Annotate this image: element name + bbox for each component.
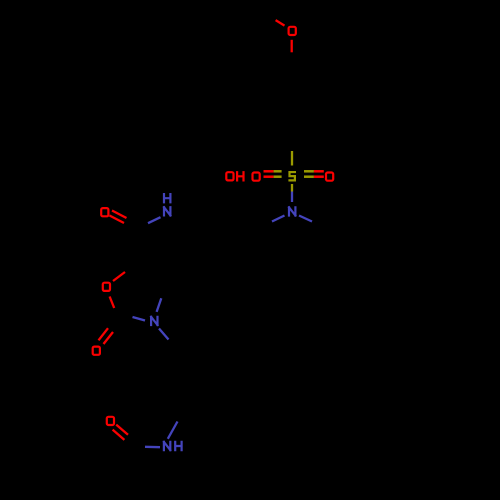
methoxy group: bond CH3-O (O half) xyxy=(276,20,285,26)
S=O left double bond, upper line olive half xyxy=(274,170,282,173)
atom O (sulfonyl right) xyxy=(326,173,333,181)
atom O (methoxy) xyxy=(289,27,296,35)
amide 1: H on N xyxy=(164,194,170,202)
bond O1-C2 (O half) xyxy=(110,297,115,309)
bond N3-C2 (N half) xyxy=(133,317,146,321)
S=O right double bond, upper line olive half xyxy=(304,170,314,173)
amide 1 bond N-C(=O), N half xyxy=(148,217,161,223)
S=O left double bond, lower line red half xyxy=(264,175,274,178)
amide 1 C=O double bond, upper line (O half) xyxy=(112,211,127,219)
S=O right double bond, lower line olive half xyxy=(304,175,314,178)
S=O left double bond, upper line red half xyxy=(264,170,274,173)
bond O-C(ring) upper half (methoxy O) xyxy=(291,40,293,53)
bond S-N, N half xyxy=(291,192,293,203)
acetamide H on N xyxy=(175,442,181,450)
amide 1: atom N xyxy=(164,207,170,215)
bond C(ring)-S upper, S half xyxy=(291,151,293,166)
acetamide C=O double bond, lower line (O half) xyxy=(113,430,125,440)
bond N-CH3 left, N half xyxy=(272,216,285,222)
amide 1: atom O (carbonyl) xyxy=(101,208,108,216)
acetamide C=O double bond, upper line (O half) xyxy=(116,425,128,435)
bond O1-C5 (O half) xyxy=(113,272,125,281)
S=O right double bond, upper line red half xyxy=(314,170,324,173)
oxazolidinone: atom O1 (ring O) xyxy=(103,283,110,291)
atom S (sulfonyl) xyxy=(290,172,295,180)
S=O left double bond, lower line olive half xyxy=(274,175,282,178)
S=O right double bond, lower line red half xyxy=(314,175,324,178)
amide 1 C=O double bond, lower line (O half) xyxy=(110,216,125,224)
atom O (oxazolidinone carbonyl) xyxy=(93,347,100,355)
acetamide bond N-C(=O), N half xyxy=(145,446,160,449)
acetamide bond CH-N (N half) xyxy=(168,422,178,439)
atom N (sulfonamide) xyxy=(289,207,295,215)
oxazolidinone C2=O double bond, left line (O half) xyxy=(99,328,109,340)
bond C4-N3 (N half) xyxy=(157,298,162,312)
atom O (sulfonyl left) xyxy=(253,173,260,181)
hydroxyl OH label H xyxy=(237,172,243,180)
acetamide: atom O (carbonyl) xyxy=(107,417,114,425)
atom N3 (oxazolidinone ring N) xyxy=(151,317,157,325)
bond N3-CH2 chain (N half) xyxy=(159,329,169,340)
bond N-CH2 right, N half xyxy=(299,216,312,222)
atom N (acetamide) xyxy=(164,442,170,450)
oxazolidinone C2=O double bond, right line (O half) xyxy=(104,332,114,344)
hydroxyl OH label O xyxy=(226,172,233,180)
bond S-N, S half xyxy=(291,184,293,192)
